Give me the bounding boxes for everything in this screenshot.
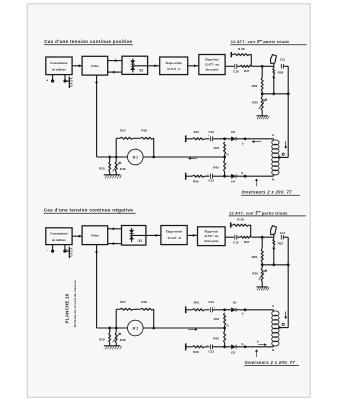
- svg-text:+: +: [66, 247, 68, 251]
- svg-text:12 AU7 - A: 12 AU7 - A: [167, 67, 180, 71]
- resistor R27 (top): [240, 65, 252, 67]
- svg-text:D3: D3: [231, 130, 235, 134]
- resistor R43 (bottom): [224, 313, 226, 326]
- resistor R30 adjustable (top): [261, 94, 263, 97]
- wire limiter to etage entree (top): [133, 65, 160, 67]
- svg-text:R30: R30: [252, 272, 258, 276]
- resistor R42 (top): [224, 157, 226, 160]
- svg-text:R43: R43: [214, 317, 220, 321]
- wire arrow commutateur to filtre (bottom): [72, 235, 82, 237]
- input jack upper (top): [185, 135, 187, 142]
- diode D2 (bottom): [225, 346, 232, 348]
- input terminal + with ground (bottom): [64, 245, 66, 251]
- svg-text:partie triode: partie triode: [263, 39, 290, 44]
- block: Filtre (bottom): [82, 226, 108, 245]
- coil tap C terminal (bottom): [282, 323, 284, 325]
- block: Filtre (top): [82, 56, 108, 75]
- resistor R43 (top): [224, 142, 226, 155]
- svg-text:de calibres: de calibres: [52, 68, 67, 72]
- svg-text:M 1: M 1: [133, 155, 139, 159]
- wire arrow etage entree to etage final (bottom): [187, 234, 197, 236]
- block: diode limiter X2 (top): [122, 56, 148, 74]
- wire filtre to limiter lower (bottom): [108, 243, 122, 245]
- svg-text:C11: C11: [280, 57, 286, 61]
- ground at input terminal (bottom): [65, 250, 69, 252]
- resistor R42 (bottom): [224, 328, 226, 331]
- svg-text:R40: R40: [193, 179, 199, 183]
- wire C10 to R27 (bottom): [237, 236, 240, 238]
- svg-text:R38: R38: [278, 71, 284, 75]
- svg-text:R27: R27: [244, 69, 250, 73]
- wire to coil node A (top): [245, 138, 273, 140]
- svg-text:ème: ème: [257, 39, 263, 43]
- svg-text:R15: R15: [99, 337, 105, 341]
- svg-text:R41: R41: [194, 301, 200, 305]
- svg-text:R43: R43: [214, 146, 220, 150]
- svg-text:12 AT7. voir 2: 12 AT7. voir 2: [229, 210, 258, 215]
- junction before D2 (bottom): [223, 345, 226, 348]
- current arrow on upper wire (top): [252, 141, 261, 143]
- svg-text:C13: C13: [208, 130, 214, 134]
- svg-text:C11: C11: [280, 231, 286, 235]
- svg-text:12 AU7 - B: 12 AU7 - B: [167, 236, 180, 240]
- chopper coil (bottom): [272, 311, 279, 316]
- current arrow on main line (top): [188, 157, 197, 159]
- wire to coil node A (bottom): [245, 309, 273, 311]
- capacitor C10 (bottom): [234, 235, 236, 240]
- junction dots on main line (bottom): [108, 327, 111, 330]
- svg-text:ème: ème: [256, 210, 262, 214]
- wire C11 down to chopper coil (top): [287, 66, 289, 157]
- cathode junction wire (bottom): [262, 264, 288, 266]
- svg-text:R41: R41: [194, 130, 200, 134]
- coil tap C terminal (top): [282, 153, 284, 155]
- svg-text:12 AT7 - wa: 12 AT7 - wa: [204, 234, 219, 238]
- svg-text:partie triode: partie triode: [262, 210, 289, 215]
- resistor R28 bypass loop (top): [230, 52, 232, 57]
- junction node b (bottom): [244, 308, 247, 311]
- svg-text:Inverseurs 2 x 20V. 77: Inverseurs 2 x 20V. 77: [245, 360, 295, 365]
- wire etage final to C10 (top): [225, 65, 234, 67]
- svg-text:X1: X1: [138, 239, 142, 243]
- svg-text:R18: R18: [141, 300, 147, 304]
- junction before R43 (bottom): [223, 308, 226, 311]
- svg-text:R40: R40: [193, 350, 199, 354]
- resistor R27 (bottom): [240, 236, 252, 238]
- svg-text:Filtre: Filtre: [91, 64, 99, 68]
- svg-text:R42: R42: [213, 166, 219, 170]
- svg-text:R 28: R 28: [238, 47, 245, 51]
- junction node after R27 (top): [261, 65, 264, 68]
- junction before R43 (top): [223, 137, 226, 140]
- capacitor C12 polarized (bottom): [205, 346, 210, 348]
- input jack upper (bottom): [185, 306, 187, 313]
- resistor R48 adjustable (top): [115, 157, 117, 162]
- wire filtre to limiter upper (top): [108, 60, 122, 62]
- wire C11 down to chopper coil (bottom): [287, 237, 289, 327]
- wire to coil node B (bottom): [245, 346, 273, 348]
- svg-text:de calibres: de calibres: [52, 238, 67, 242]
- resistor R26 (bottom): [261, 237, 263, 248]
- resistor R48 adjustable (bottom): [115, 328, 117, 333]
- diode pair X1 (bottom): [131, 228, 133, 242]
- shunt resistors R17 R18 (bottom): [115, 309, 117, 328]
- svg-text:R 29: R 29: [237, 217, 244, 221]
- svg-text:C10: C10: [233, 240, 239, 244]
- input jack lower (bottom): [185, 343, 187, 350]
- junction dots on main line (top): [108, 156, 111, 159]
- svg-text:D4: D4: [231, 180, 235, 184]
- svg-text:E: E: [242, 171, 244, 175]
- diode D4 (top): [225, 175, 232, 177]
- svg-text:−: −: [47, 249, 49, 253]
- shunt resistors R17 R18 (top): [115, 138, 117, 157]
- wire limiter to etage entree (bottom): [132, 234, 161, 236]
- node D junction (bottom): [223, 327, 226, 330]
- svg-text:12 AT7 - wa: 12 AT7 - wa: [205, 63, 220, 67]
- triode section symbol (top): [271, 55, 277, 64]
- svg-text:R17: R17: [120, 300, 126, 304]
- ground below R30 (top): [256, 115, 268, 117]
- svg-text:b: b: [242, 141, 244, 145]
- svg-text:C12: C12: [208, 179, 214, 183]
- current arrow on main line (bottom): [188, 328, 197, 330]
- svg-text:E: E: [242, 342, 244, 346]
- main measure line (top): [97, 156, 225, 158]
- wire R27 to grid node (top): [252, 65, 274, 67]
- svg-text:D: D: [227, 324, 229, 328]
- block: Etage final 12AT7 (bottom): [198, 227, 226, 246]
- ground below R30 (bottom): [256, 286, 268, 288]
- svg-text:+: +: [46, 79, 48, 83]
- input terminal - (bottom): [52, 245, 54, 251]
- svg-text:D: D: [227, 153, 229, 157]
- wire arrow commutateur to filtre (top): [72, 65, 82, 67]
- junction node after R27 (bottom): [261, 236, 264, 239]
- block: Commutateur de calibres (top): [46, 57, 72, 75]
- svg-text:Schéma du circuit de mesure: Schéma du circuit de mesure: [73, 280, 77, 327]
- block: Etage entree 12AU7 (top): [160, 57, 188, 75]
- svg-text:R48: R48: [120, 167, 126, 171]
- wire R27 to grid node (bottom): [252, 236, 274, 238]
- svg-text:b: b: [242, 311, 244, 315]
- arrow to inverseurs label (bottom): [256, 350, 258, 357]
- input jack lower (top): [185, 173, 187, 180]
- wire filtre down to main line (top): [96, 75, 98, 157]
- svg-text:12 AT7. voir 2: 12 AT7. voir 2: [231, 39, 260, 44]
- diode D3 (top): [225, 138, 232, 140]
- svg-text:C10: C10: [233, 69, 239, 73]
- svg-text:R27: R27: [244, 240, 250, 244]
- junction before D4 (top): [223, 175, 226, 178]
- resistor R41 (top): [186, 138, 193, 140]
- svg-text:R15: R15: [99, 166, 105, 170]
- resistor R36 (top): [261, 66, 263, 77]
- svg-text:b: b: [257, 339, 259, 343]
- node E (top): [244, 175, 247, 178]
- triode section symbol (bottom): [271, 226, 277, 235]
- block: Etage final 12AT7 (top): [199, 55, 225, 75]
- main measure line (bottom): [97, 327, 225, 329]
- input terminal - with ground (top): [64, 75, 66, 81]
- svg-text:R42: R42: [213, 337, 219, 341]
- diode D1 (bottom): [225, 309, 232, 311]
- meter M1 (bottom): [128, 320, 144, 336]
- input terminal + (top): [52, 75, 54, 81]
- cathode junction wire (top): [262, 93, 288, 95]
- resistor R38 with current arrow (top): [273, 66, 275, 68]
- svg-text:Cas d'une tension continue nég: Cas d'une tension continue négative: [44, 208, 134, 213]
- svg-text:R30: R30: [252, 101, 258, 105]
- ground below R15 R48 (bottom): [104, 345, 121, 347]
- resistor R41 (bottom): [186, 309, 193, 311]
- svg-text:2ème partie: 2ème partie: [204, 239, 219, 243]
- resistor R15 (bottom): [109, 328, 111, 333]
- svg-text:R18: R18: [141, 128, 147, 132]
- svg-text:R26: R26: [252, 255, 258, 259]
- junction node b (top): [244, 137, 247, 140]
- svg-text:R48: R48: [120, 338, 126, 342]
- resistor R29 bypass loop (bottom): [230, 222, 232, 227]
- wire C10 to R27 (top): [237, 65, 240, 67]
- capacitor C10 (top): [234, 64, 236, 69]
- arrow to inverseurs label (top): [256, 179, 258, 186]
- svg-text:C12: C12: [208, 349, 214, 353]
- capacitor C13 polarized (bottom): [205, 309, 210, 311]
- block: diode limiter X1 (bottom): [122, 226, 146, 246]
- svg-text:Cas d'une tension continue pos: Cas d'une tension continue positive: [44, 39, 132, 44]
- wire filtre down to main line (bottom): [96, 245, 98, 328]
- resistor R40 (bottom): [186, 346, 193, 348]
- svg-text:M 1: M 1: [133, 326, 139, 330]
- svg-text:Commutateur: Commutateur: [50, 232, 67, 236]
- svg-text:PLANCHE 10: PLANCHE 10: [64, 293, 69, 323]
- block: Etage entree 12AU7 (bottom): [161, 226, 187, 245]
- capacitor C12 polarized (top): [205, 175, 210, 177]
- resistor R40 (top): [186, 175, 193, 177]
- node D junction (top): [223, 156, 226, 159]
- wire to coil node B (top): [245, 175, 273, 177]
- svg-text:Inverseurs 2 x 20V. 77: Inverseurs 2 x 20V. 77: [242, 190, 292, 195]
- resistor R15 (top): [109, 157, 111, 162]
- chopper coil (top): [272, 140, 279, 145]
- wire etage final to C10 (bottom): [225, 236, 234, 238]
- meter M1 (top): [128, 149, 144, 165]
- resistor R37 with current arrow (bottom): [273, 237, 275, 239]
- svg-text:X2: X2: [139, 69, 143, 73]
- wire filtre to limiter upper (bottom): [108, 228, 122, 230]
- svg-text:D2: D2: [231, 350, 235, 354]
- wire arrow etage entree to etage final (top): [188, 65, 199, 67]
- svg-text:1ère partie: 1ère partie: [205, 67, 219, 71]
- svg-text:Filtre: Filtre: [91, 233, 99, 237]
- wire filtre to limiter lower (top): [108, 71, 122, 73]
- ground at input terminal (top): [65, 80, 69, 82]
- capacitor C13 polarized (top): [205, 138, 210, 140]
- diode pair X2 (top): [132, 59, 134, 73]
- svg-text:R37: R37: [278, 241, 284, 245]
- block: Commutateur de calibres (bottom): [46, 228, 72, 245]
- svg-text:R17: R17: [120, 128, 126, 132]
- svg-text:R36: R36: [252, 84, 258, 88]
- ground below R15 R48 (top): [104, 174, 121, 176]
- resistor R30 adjustable (bottom): [261, 265, 263, 268]
- node E (bottom): [244, 345, 247, 348]
- svg-text:C13: C13: [208, 300, 214, 304]
- svg-text:Commutateur: Commutateur: [50, 61, 67, 65]
- svg-text:D1: D1: [233, 301, 237, 305]
